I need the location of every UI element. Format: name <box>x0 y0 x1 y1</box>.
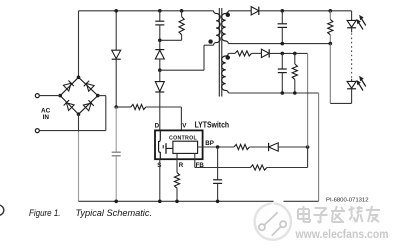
svg-text:Figure 1.: Figure 1. <box>29 208 61 218</box>
LED1 light arrows <box>357 15 366 29</box>
junction bias cap top <box>281 52 285 56</box>
LED2 light arrows <box>357 76 366 90</box>
wire R1 bottom to clamp node <box>160 35 182 41</box>
svg-text:D: D <box>155 122 160 129</box>
watermark url www.elecfans.com <box>295 228 389 241</box>
wire LED2 to return <box>330 89 351 104</box>
LED LED2 <box>347 81 356 88</box>
label AC IN <box>41 107 51 121</box>
junction R8 return <box>293 91 297 95</box>
label left margin cropped glyph <box>0 205 4 215</box>
junction clamp node <box>158 39 162 43</box>
wire bias vertical down <box>307 53 309 167</box>
wire C2 bottom <box>159 25 161 40</box>
capacitor C4 output <box>278 24 287 28</box>
junction V-resistor tap <box>114 105 118 109</box>
wire bridge bottom vertex down to ground rail <box>78 114 80 201</box>
resistor R7 bias series <box>235 51 252 56</box>
wire secondary top to D5 <box>228 10 251 12</box>
wire bridge right vertex jog <box>98 96 106 131</box>
label pin V <box>182 122 187 129</box>
label pin BP <box>205 140 214 147</box>
wire BP cap drop <box>217 147 219 180</box>
wire C1 to ground rail <box>115 156 117 202</box>
transformer T1 secondary winding <box>222 11 229 44</box>
node bias phase dot <box>226 55 230 59</box>
wire node A to primary bottom <box>160 45 214 70</box>
wire bleeder top seg <box>329 11 331 20</box>
wire output cap C4 top <box>281 11 283 24</box>
bridge diode upper-right <box>84 81 94 91</box>
junction bias res top <box>293 52 297 56</box>
wire bias return to ground rail <box>318 93 320 201</box>
svg-text:Typical Schematic.: Typical Schematic. <box>76 208 153 218</box>
capacitor C3 bypass <box>213 180 222 184</box>
capacitor C5 bias top seg <box>281 53 283 69</box>
junction node A <box>158 68 162 72</box>
junction return rail end <box>329 42 333 46</box>
diode D1 pointing up <box>155 50 164 59</box>
wire D6 to bias node corner <box>269 52 307 54</box>
wire top rail junction to diode D3 <box>115 11 117 50</box>
junction C1 ground <box>114 200 118 204</box>
watermark text dianzifashaoyou <box>298 206 380 223</box>
wire R7 to D6 <box>252 52 262 54</box>
capacitor C5 bias <box>278 69 287 73</box>
LED LED1 <box>347 20 356 27</box>
svg-text:www.elecfans.com: www.elecfans.com <box>295 228 389 241</box>
wire tap to resistor R2 <box>116 106 131 108</box>
wire LED2 stub top <box>351 79 353 82</box>
svg-text:PI-6800-071312: PI-6800-071312 <box>326 198 369 204</box>
wire rail to clamp resistor R1 <box>181 11 183 17</box>
junction top rail / clamp resistor <box>180 9 184 13</box>
diode D6 bias rectifier <box>261 49 269 57</box>
wire clamp node to D1 <box>159 40 161 49</box>
junction bridge right vertex <box>96 94 100 98</box>
capacitor C1 <box>112 152 121 156</box>
op-amp U1 LYTSwitch IC box <box>155 130 203 159</box>
bridge rectifier BR1 diamond <box>60 77 98 114</box>
wire R5 to D4 <box>249 146 268 148</box>
svg-text:V: V <box>182 122 187 129</box>
wire dotted LED string continuation <box>351 33 353 79</box>
resistor R8 bias load <box>292 64 297 79</box>
node primary phase dot <box>208 39 212 43</box>
svg-text:IN: IN <box>43 114 50 121</box>
wire bias res drop <box>294 53 296 64</box>
wire R2 to V pin <box>146 107 182 130</box>
wire D2 to DRAIN pin <box>159 93 161 130</box>
svg-text:LYTSwitch: LYTSwitch <box>195 120 230 129</box>
resistor R5 BP charge <box>234 144 249 149</box>
wire BP pin <box>198 146 234 148</box>
label LYTSwitch <box>195 120 230 129</box>
label Figure 1 caption <box>29 208 152 218</box>
junction bridge top vertex <box>77 76 81 80</box>
wire LED1 stub <box>351 28 353 33</box>
wire D5 to LED string corner <box>259 10 352 12</box>
watermark logo <box>255 195 291 240</box>
wire bias return rail <box>228 92 318 94</box>
diode D4 pointing left <box>269 143 279 151</box>
AC terminal upper <box>35 94 39 98</box>
resistor R1 clamp <box>179 17 184 35</box>
junction top rail / clamp cap <box>158 9 162 13</box>
wire C4 to return rail <box>281 27 283 43</box>
svg-text:FB: FB <box>196 162 205 169</box>
resistor R6 bleeder <box>328 19 333 34</box>
wire node A to D2 <box>159 70 161 81</box>
junction C3 ground <box>216 200 220 204</box>
wire tap to input capacitor C1 <box>115 107 117 152</box>
wire FB pin <box>195 153 251 167</box>
svg-text:BP: BP <box>205 140 214 147</box>
diode D5 output rectifier <box>251 7 259 15</box>
junction R3 ground <box>175 200 179 204</box>
wire bottom ground rail <box>79 200 319 202</box>
label PI-6800-071312 <box>326 198 369 204</box>
junction C4 return <box>281 42 285 46</box>
wire R pin <box>176 153 178 172</box>
resistor R2 line sense <box>131 104 146 109</box>
junction bleeder top <box>329 9 333 13</box>
junction output cap top <box>281 9 285 13</box>
junction bias vertical / BP chain <box>306 145 310 149</box>
junction bridge bottom vertex <box>77 112 81 116</box>
label CONTROL <box>169 135 197 141</box>
diode D2 pointing down <box>155 82 164 92</box>
wire D4 to bias vertical <box>278 146 307 148</box>
junction bridge left vertex <box>58 94 62 98</box>
wire R4 to bias node <box>267 167 308 169</box>
wire output return rail <box>228 43 330 45</box>
diode D3 pointing down <box>112 50 121 59</box>
controller block inside U1 <box>173 141 198 153</box>
transformer T1 primary winding <box>214 11 221 45</box>
wire AC upper to bridge <box>39 95 60 97</box>
node secondary phase dot <box>226 13 230 17</box>
label pin D <box>155 122 160 129</box>
junction top rail / D3 line <box>114 9 118 13</box>
resistor R4 feedback <box>250 165 266 170</box>
svg-text:CONTROL: CONTROL <box>169 135 197 141</box>
transformer T1 core <box>219 8 222 97</box>
junction S ground <box>158 200 162 204</box>
wire top rail (primary DC+ bus) <box>79 10 214 12</box>
AC terminal lower <box>35 129 39 133</box>
transformer T1 bias winding <box>222 53 229 93</box>
capacitor C2 clamp <box>155 21 164 25</box>
transistor Q1 MOSFET inside U1 <box>159 130 173 159</box>
label pin R <box>179 162 184 169</box>
wire R8 bottom <box>294 79 296 93</box>
wire rail to clamp cap C2 <box>159 11 161 21</box>
wire D3 to V-resistor tap <box>115 59 117 107</box>
wire LED string drop <box>351 11 353 21</box>
label pin FB <box>196 162 205 169</box>
label pin S <box>157 162 161 169</box>
bridge diode lower-left <box>64 100 74 110</box>
wire bleeder bottom seg <box>329 35 331 44</box>
resistor R3 on R pin <box>174 173 179 189</box>
junction BP node <box>216 145 220 149</box>
wire C5 bottom <box>281 73 283 93</box>
wire S pin to ground <box>159 159 161 201</box>
wire LED return vertical <box>329 44 331 104</box>
wire C3 to ground <box>217 183 219 201</box>
bridge diode upper-left <box>63 80 73 90</box>
svg-text:R: R <box>179 162 184 169</box>
junction C5 return <box>281 91 285 95</box>
wire R3 to ground <box>176 188 178 201</box>
bridge diode lower-right <box>83 100 93 110</box>
wire left vertical from top rail to bridge + vertex <box>78 11 80 78</box>
wire D1 to node A <box>159 59 161 70</box>
wire bias top to R7 <box>228 52 235 54</box>
wire AC lower <box>39 130 106 132</box>
